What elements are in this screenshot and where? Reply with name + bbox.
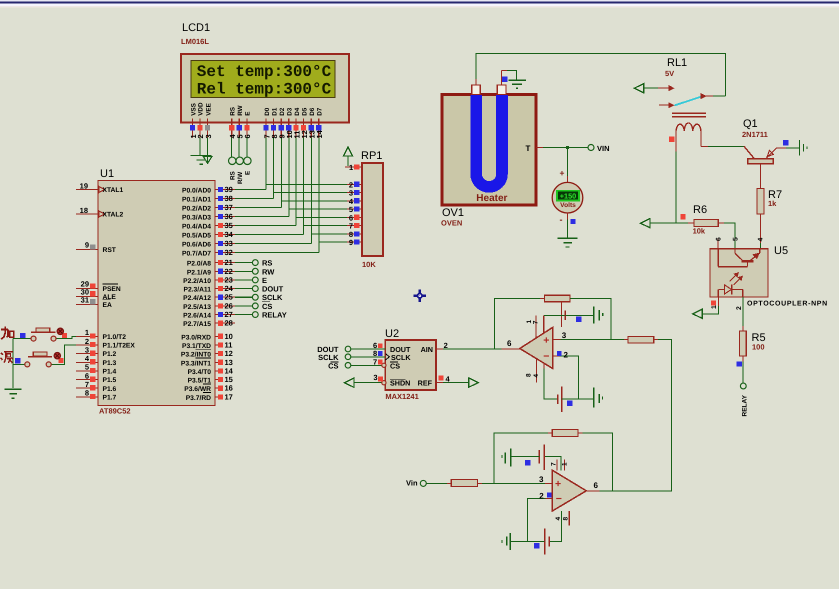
svg-text:3: 3 xyxy=(204,134,213,138)
svg-text:VDD: VDD xyxy=(198,102,205,116)
svg-text:E: E xyxy=(245,171,252,175)
svg-text:VEE: VEE xyxy=(205,103,212,116)
svg-text:REF: REF xyxy=(418,379,433,388)
svg-text:11: 11 xyxy=(225,340,233,349)
svg-text:P1.5: P1.5 xyxy=(103,377,117,384)
svg-text:3: 3 xyxy=(562,331,567,340)
svg-text:P1.2: P1.2 xyxy=(103,351,117,358)
svg-text:D3: D3 xyxy=(287,107,294,116)
svg-text:RS: RS xyxy=(229,171,236,180)
svg-text:P2.7/A15: P2.7/A15 xyxy=(183,321,211,328)
svg-text:24: 24 xyxy=(225,284,234,293)
svg-text:+150: +150 xyxy=(560,192,576,201)
svg-text:P2.1/A9: P2.1/A9 xyxy=(187,269,211,276)
svg-text:RL1: RL1 xyxy=(667,57,687,69)
svg-text:P0.2/AD2: P0.2/AD2 xyxy=(182,206,211,213)
svg-text:LM016L: LM016L xyxy=(181,37,209,46)
svg-text:100: 100 xyxy=(752,343,765,352)
svg-text:32: 32 xyxy=(225,248,233,257)
svg-text:RP1: RP1 xyxy=(361,150,382,162)
svg-text:P0.4/AD4: P0.4/AD4 xyxy=(182,224,211,231)
svg-text:1: 1 xyxy=(349,163,353,172)
svg-text:10K: 10K xyxy=(362,260,376,269)
svg-text:E: E xyxy=(245,112,252,116)
svg-text:19: 19 xyxy=(80,181,88,190)
svg-text:P2.6/A14: P2.6/A14 xyxy=(183,313,211,320)
svg-text:EA: EA xyxy=(103,302,112,309)
svg-text:2: 2 xyxy=(85,337,89,346)
svg-text:E: E xyxy=(262,276,267,285)
svg-text:3: 3 xyxy=(85,345,89,354)
svg-text:10: 10 xyxy=(225,332,233,341)
svg-text:4: 4 xyxy=(533,374,540,378)
svg-text:R6: R6 xyxy=(693,204,707,216)
svg-text:+: + xyxy=(555,478,561,490)
svg-text:D4: D4 xyxy=(294,107,301,116)
svg-text:P2.0/A8: P2.0/A8 xyxy=(187,261,211,268)
svg-text:+: + xyxy=(543,335,549,347)
svg-text:2: 2 xyxy=(539,492,544,501)
svg-text:34: 34 xyxy=(225,230,234,239)
svg-text:21: 21 xyxy=(225,258,233,267)
svg-text:P0.3/AD3: P0.3/AD3 xyxy=(182,215,211,222)
svg-text:RS: RS xyxy=(229,107,236,116)
svg-text:6: 6 xyxy=(716,237,723,241)
svg-text:D7: D7 xyxy=(317,107,324,116)
svg-text:CS: CS xyxy=(390,361,400,370)
svg-text:2N1711: 2N1711 xyxy=(742,130,768,139)
svg-text:T: T xyxy=(526,144,531,153)
svg-text:6: 6 xyxy=(507,339,512,348)
svg-text:3: 3 xyxy=(373,373,377,382)
svg-text:15: 15 xyxy=(225,375,233,384)
svg-text:MAX1241: MAX1241 xyxy=(385,392,418,401)
svg-text:P1.4: P1.4 xyxy=(103,369,117,376)
svg-text:1: 1 xyxy=(562,462,569,466)
svg-text:-: - xyxy=(560,214,563,224)
svg-text:36: 36 xyxy=(225,212,233,221)
svg-text:D2: D2 xyxy=(279,107,286,116)
svg-text:XTAL2: XTAL2 xyxy=(103,212,124,219)
svg-text:P3.7/RD: P3.7/RD xyxy=(186,395,211,402)
svg-text:23: 23 xyxy=(225,275,233,284)
svg-text:Heater: Heater xyxy=(476,193,507,204)
svg-text:33: 33 xyxy=(225,239,233,248)
svg-text:SCLK: SCLK xyxy=(262,293,283,302)
svg-text:P3.4/T0: P3.4/T0 xyxy=(188,369,212,376)
svg-text:OPTOCOUPLER-NPN: OPTOCOUPLER-NPN xyxy=(747,301,828,308)
svg-text:P2.2/A10: P2.2/A10 xyxy=(183,278,211,285)
svg-text:OVEN: OVEN xyxy=(441,219,462,228)
svg-text:P0.1/AD1: P0.1/AD1 xyxy=(182,197,211,204)
svg-text:13: 13 xyxy=(225,358,233,367)
svg-text:8: 8 xyxy=(85,389,89,398)
svg-text:6: 6 xyxy=(85,371,89,380)
svg-text:D6: D6 xyxy=(309,107,316,116)
svg-text:CS: CS xyxy=(262,302,272,311)
svg-text:P2.3/A11: P2.3/A11 xyxy=(183,287,211,294)
svg-text:P2.4/A12: P2.4/A12 xyxy=(183,295,211,302)
svg-text:RS: RS xyxy=(262,259,272,268)
svg-text:7: 7 xyxy=(533,320,540,324)
svg-text:39: 39 xyxy=(225,185,233,194)
svg-text:Q1: Q1 xyxy=(743,118,758,130)
svg-text:35: 35 xyxy=(225,221,233,230)
svg-text:XTAL1: XTAL1 xyxy=(103,187,124,194)
svg-text:4: 4 xyxy=(555,517,562,521)
svg-text:P1.3: P1.3 xyxy=(103,360,117,367)
svg-text:37: 37 xyxy=(225,203,233,212)
svg-text:VIN: VIN xyxy=(597,144,610,153)
svg-text:D0: D0 xyxy=(264,107,271,116)
svg-text:6: 6 xyxy=(594,481,599,490)
svg-text:P3.3/INT1: P3.3/INT1 xyxy=(181,360,211,367)
svg-text:P2.5/A13: P2.5/A13 xyxy=(183,304,211,311)
svg-text:14: 14 xyxy=(315,129,324,138)
svg-text:D5: D5 xyxy=(301,107,308,116)
svg-text:7: 7 xyxy=(85,380,89,389)
svg-text:U2: U2 xyxy=(385,328,399,340)
svg-text:4: 4 xyxy=(757,238,764,242)
svg-text:CS: CS xyxy=(328,361,338,370)
svg-text:Set temp:300°C: Set temp:300°C xyxy=(197,63,332,81)
svg-text:RELAY: RELAY xyxy=(262,311,287,320)
svg-text:10k: 10k xyxy=(693,227,706,236)
svg-text:2: 2 xyxy=(564,350,569,359)
svg-text:8: 8 xyxy=(526,373,533,377)
svg-text:3: 3 xyxy=(539,475,544,484)
svg-text:AT89C52: AT89C52 xyxy=(99,407,131,416)
svg-text:27: 27 xyxy=(225,310,233,319)
svg-text:Rel temp:300°C: Rel temp:300°C xyxy=(197,81,332,99)
svg-text:P0.0/AD0: P0.0/AD0 xyxy=(182,188,211,195)
svg-text:17: 17 xyxy=(225,392,233,401)
svg-text:12: 12 xyxy=(225,349,233,358)
svg-text:14: 14 xyxy=(225,366,234,375)
svg-text:22: 22 xyxy=(225,267,233,276)
svg-text:P1.6: P1.6 xyxy=(103,386,117,393)
svg-text:VSS: VSS xyxy=(190,103,197,116)
svg-text:Vin: Vin xyxy=(406,478,418,487)
svg-text:LCD1: LCD1 xyxy=(182,22,210,34)
svg-text:−: − xyxy=(556,493,562,505)
svg-text:1: 1 xyxy=(711,305,718,309)
svg-text:P1.0/T2: P1.0/T2 xyxy=(103,334,127,341)
svg-text:7: 7 xyxy=(551,462,558,466)
svg-text:25: 25 xyxy=(225,293,233,302)
svg-text:RW: RW xyxy=(262,267,275,276)
svg-text:RELAY: RELAY xyxy=(742,394,749,416)
svg-text:P0.5/AD5: P0.5/AD5 xyxy=(182,233,211,240)
svg-text:P0.7/AD7: P0.7/AD7 xyxy=(182,251,211,258)
svg-text:5: 5 xyxy=(85,363,89,372)
svg-text:16: 16 xyxy=(225,384,233,393)
svg-text:P1.1/T2EX: P1.1/T2EX xyxy=(103,343,136,350)
svg-text:2: 2 xyxy=(444,341,448,350)
svg-text:5V: 5V xyxy=(665,69,674,78)
svg-text:26: 26 xyxy=(225,301,233,310)
svg-text:6: 6 xyxy=(243,134,252,138)
svg-text:5: 5 xyxy=(732,237,739,241)
svg-text:9: 9 xyxy=(85,241,89,250)
svg-text:D1: D1 xyxy=(271,107,278,116)
svg-text:U5: U5 xyxy=(774,245,788,257)
svg-text:+: + xyxy=(560,168,565,178)
svg-text:31: 31 xyxy=(81,296,89,305)
svg-text:PSEN: PSEN xyxy=(103,286,121,293)
svg-text:AIN: AIN xyxy=(421,345,433,354)
svg-text:9: 9 xyxy=(349,238,353,247)
svg-text:RW: RW xyxy=(237,105,244,115)
svg-text:SHDN: SHDN xyxy=(390,379,410,388)
svg-text:P3.0/RXD: P3.0/RXD xyxy=(181,334,211,341)
svg-text:U1: U1 xyxy=(100,168,114,180)
svg-text:18: 18 xyxy=(80,206,88,215)
svg-text:1: 1 xyxy=(85,328,89,337)
svg-text:2: 2 xyxy=(736,306,743,310)
svg-text:−: − xyxy=(543,350,549,362)
svg-text:P1.7: P1.7 xyxy=(103,394,117,401)
svg-text:8: 8 xyxy=(563,517,570,521)
svg-text:RST: RST xyxy=(103,247,117,254)
svg-text:R/W: R/W xyxy=(237,172,244,184)
svg-text:DOUT: DOUT xyxy=(262,285,284,294)
svg-text:1k: 1k xyxy=(768,199,777,208)
svg-text:28: 28 xyxy=(225,319,233,328)
svg-text:P0.6/AD6: P0.6/AD6 xyxy=(182,242,211,249)
svg-text:Volts: Volts xyxy=(560,202,576,209)
svg-text:7: 7 xyxy=(373,358,377,367)
svg-text:OV1: OV1 xyxy=(442,207,464,219)
svg-text:38: 38 xyxy=(225,194,233,203)
